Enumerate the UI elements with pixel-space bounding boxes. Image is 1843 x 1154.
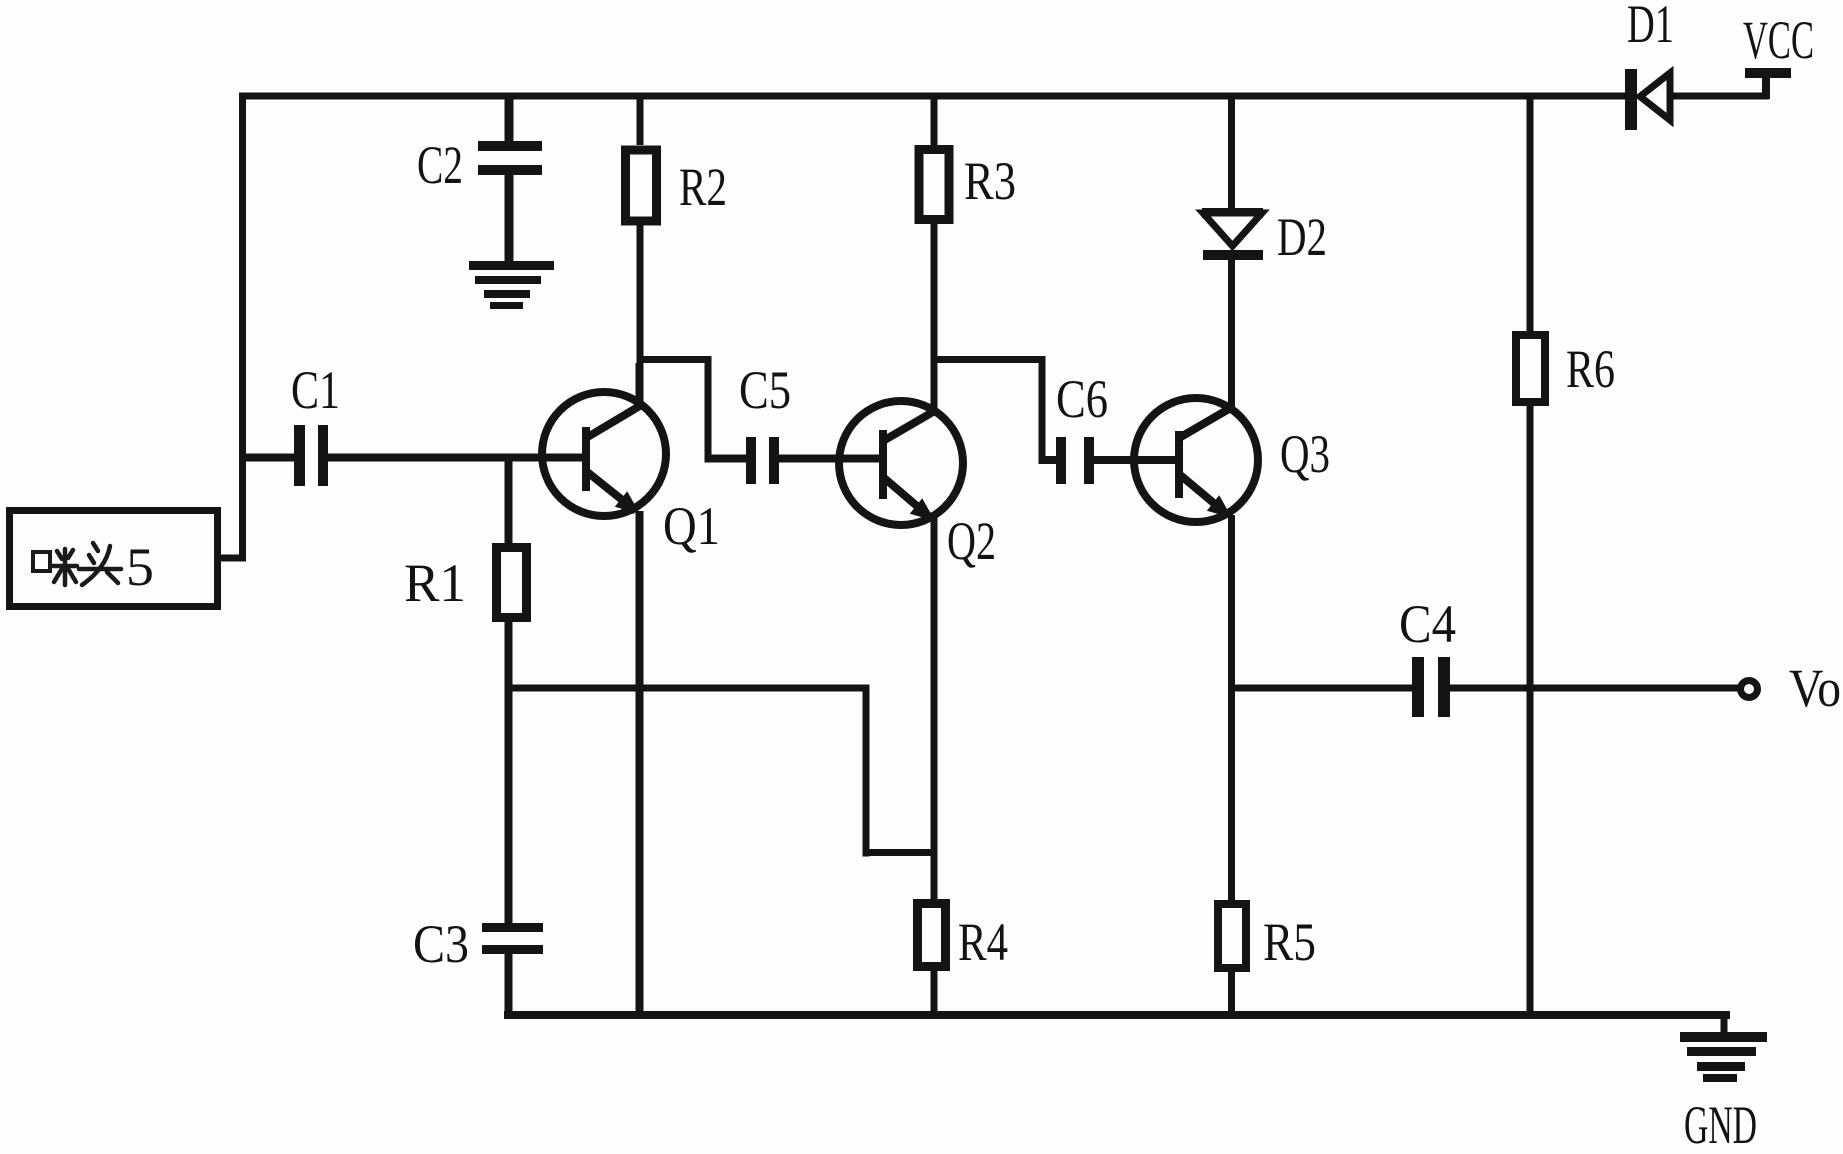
svg-text:VCC: VCC bbox=[1743, 10, 1814, 70]
svg-text:C6: C6 bbox=[1056, 369, 1108, 429]
svg-text:R3: R3 bbox=[964, 151, 1016, 211]
svg-text:5: 5 bbox=[126, 537, 154, 597]
svg-text:GND: GND bbox=[1684, 1095, 1757, 1154]
svg-text:D2: D2 bbox=[1277, 207, 1327, 267]
svg-text:Q2: Q2 bbox=[947, 511, 996, 571]
svg-text:C2: C2 bbox=[417, 135, 463, 195]
svg-text:Q3: Q3 bbox=[1280, 424, 1330, 484]
svg-text:Vo: Vo bbox=[1789, 658, 1841, 718]
svg-text:C3: C3 bbox=[413, 914, 469, 974]
svg-text:C5: C5 bbox=[739, 360, 791, 420]
svg-text:C1: C1 bbox=[291, 360, 340, 420]
svg-text:R2: R2 bbox=[679, 157, 727, 217]
svg-text:D1: D1 bbox=[1627, 0, 1674, 54]
svg-text:Q1: Q1 bbox=[663, 496, 720, 556]
svg-text:R4: R4 bbox=[958, 912, 1008, 972]
svg-text:R6: R6 bbox=[1566, 339, 1615, 399]
svg-text:R1: R1 bbox=[404, 553, 466, 613]
svg-text:C4: C4 bbox=[1399, 594, 1456, 654]
svg-text:R5: R5 bbox=[1263, 912, 1316, 972]
